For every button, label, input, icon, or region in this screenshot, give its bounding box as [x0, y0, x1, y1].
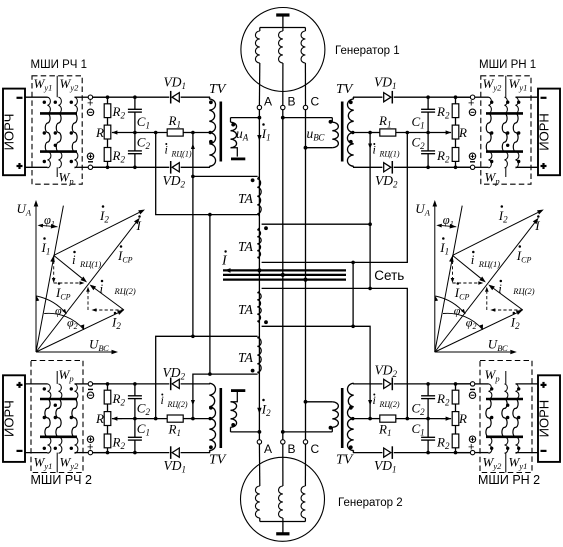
wire R1 to TV tap: [183, 132, 193, 134]
svg-text:+: +: [468, 98, 474, 110]
ground symbol TV3: [231, 389, 245, 392]
node R1-branch2 junction lowerright: [368, 417, 372, 421]
svg-text:RЦ(2): RЦ(2): [167, 400, 188, 409]
TV4 secondary winding upper half: [348, 383, 354, 418]
terminal MShI RN1 top: [470, 95, 474, 99]
wire TV3 secondary bottom to VD1 lower: [181, 452, 210, 454]
MShI RCh1 dashed box: [32, 76, 82, 184]
wire R1 to TV3 tap: [183, 418, 193, 420]
node lowbot-cap junction right: [426, 451, 430, 455]
generator G2 neutral bar: [276, 532, 289, 535]
wire TA1 top stub: [193, 175, 258, 177]
node top-capacitor junction: [133, 95, 137, 99]
wire TV1 primary to ground: [231, 148, 238, 157]
generator G2 circle: [241, 457, 325, 541]
terminal MShI RCh2 top: [88, 382, 92, 386]
node lowtop-res junction: [106, 382, 110, 386]
wire RN2 to IORN bottom: [516, 452, 539, 454]
wire middle row lower-left: [112, 418, 167, 420]
polarity circled-plus bottom: [87, 153, 93, 159]
MShI RCh2 transformer core bars: [40, 398, 77, 401]
TV2 primary polarity dot: [329, 120, 333, 124]
svg-text:Сеть: Сеть: [374, 268, 404, 283]
generator G1 circle: [241, 8, 325, 92]
capacitor C1 lower-left: [134, 419, 136, 437]
node bus-B junction: [281, 273, 285, 277]
node middle-cap junction right: [426, 131, 430, 135]
phasor left U_A axis: [35, 207, 37, 353]
current arrow i_RC1 upper-right: [368, 144, 372, 150]
svg-text:RЦ(1): RЦ(1): [478, 259, 500, 269]
wire terminal to chain top lower: [93, 383, 108, 385]
TV3 secondary polarity dot top: [209, 406, 213, 410]
polarity - bottom right: [470, 161, 475, 163]
TA3 current transformer coil on phase A: [257, 293, 261, 322]
terminal B bottom: [281, 440, 285, 444]
node bottom-capacitor junction: [133, 166, 137, 170]
wire bottom row lower-right: [394, 452, 473, 454]
wire TV4 center tap: [354, 418, 370, 420]
wire B to TV4 primary: [283, 431, 333, 433]
phasor left I1 vector arrowhead: [50, 255, 55, 262]
phasor left I_RC2 vector: [95, 288, 124, 310]
wire phase B line: [282, 110, 284, 440]
current arrow i_RC2 lower-left: [191, 400, 195, 406]
phasor left U_BC axis: [36, 351, 112, 353]
TV1 core: [220, 102, 223, 162]
resistor R2 lower-right bottom: [455, 426, 457, 435]
node C-TV2 junction: [304, 146, 308, 150]
terminal C top: [303, 105, 307, 109]
wire TA4 top to branch1 lower: [156, 336, 258, 418]
wire bottom row upper-right: [394, 166, 473, 168]
capacitor C1 lower-right: [427, 419, 429, 437]
svg-text:ТА: ТА: [238, 302, 254, 317]
mains bus line 3: [223, 278, 346, 280]
generator G1 neutral bar: [276, 13, 289, 16]
TV4 secondary polarity dot bottom: [349, 445, 353, 449]
terminal A bottom: [257, 440, 261, 444]
svg-text:ИОРЧ: ИОРЧ: [2, 400, 17, 437]
wire TV2 secondary top to VD1 right: [353, 96, 382, 98]
TV1 secondary polarity dot bottom: [209, 140, 213, 144]
MShI RCh1 Wp stub: [56, 167, 58, 177]
terminal C bottom: [303, 440, 307, 444]
wire branch3 vertical: [209, 215, 211, 375]
svg-text:МШИ РЧ 1: МШИ РЧ 1: [31, 59, 88, 71]
svg-text:R: R: [95, 411, 104, 426]
wire right branch2 vertical upper: [369, 133, 371, 289]
MShI RN2 top windings Wp: [489, 384, 492, 399]
svg-text:R: R: [458, 125, 467, 140]
TV3 primary polarity dot: [231, 423, 235, 427]
wire RN1 to IORN bottom: [516, 166, 539, 168]
svg-text:МШИ РН 2: МШИ РН 2: [478, 473, 540, 487]
phasor left I_RC1 vector: [54, 255, 82, 278]
terminal MShI RN2 top: [470, 382, 474, 386]
wire top row upper-right: [394, 96, 473, 98]
svg-text:С: С: [311, 442, 320, 456]
diode VD1 upper-left: [170, 91, 172, 104]
MShI RCh1 winding Wy1 top: [48, 97, 51, 113]
MShI RCh2 middle dots: [43, 416, 46, 419]
diode VD1 lower-right: [391, 446, 393, 459]
phasor right I2 lower vector: [435, 313, 517, 352]
phasor right I_RC2 dashed horizontal: [495, 309, 523, 311]
svg-text:I: I: [534, 218, 540, 233]
node lowtop-res junction right: [454, 382, 458, 386]
generator G2 winding phase B: [282, 444, 284, 486]
phasor left I2 lower vector: [36, 313, 118, 352]
phasor left I total vector: [36, 223, 136, 352]
wire MShI RCh2 bottom output: [75, 452, 89, 454]
svg-text:В: В: [288, 95, 296, 109]
wire RN2 terminal to chain bottom: [456, 452, 471, 454]
MShI RCh1 middle dots: [43, 131, 46, 134]
resistor R2 lower-left top: [107, 384, 109, 390]
MShI RN2 transformer core bars: [486, 398, 523, 401]
diode VD1 lower-left: [170, 446, 172, 459]
resistor R1 upper-right: [380, 129, 396, 136]
wire top row lower-right: [394, 383, 473, 385]
IORN minus upper: [541, 97, 547, 99]
phasor right I_RC1 vector: [453, 255, 481, 278]
IORCh minus upper: [17, 97, 23, 99]
svg-text:ИОРН: ИОРН: [537, 113, 552, 151]
resistor R1 lower-left: [167, 415, 183, 422]
phasor right I_RC1 dashed horizontal: [453, 282, 479, 284]
wire TV3 primary to ground: [231, 392, 238, 402]
capacitor C2 lower-left: [134, 384, 136, 396]
MShI RCh1 winding center top stub: [56, 76, 58, 97]
R wiper arrow upper-left: [117, 132, 122, 134]
node top-resistor junction: [106, 95, 110, 99]
svg-text:TV: TV: [336, 453, 354, 468]
wire R1 to TV4 tap: [370, 418, 380, 420]
svg-text:RЦ(1): RЦ(1): [79, 259, 101, 269]
capacitor C2 upper-left: [134, 133, 136, 151]
TA2 polarity dot: [264, 226, 268, 230]
phasor right U_BC axis: [435, 351, 511, 353]
IORCh plus lower: [17, 383, 23, 385]
TV2 secondary winding upper half: [348, 99, 354, 133]
MShI RN1 middle dots: [490, 131, 493, 134]
wire TA4 bottom to i_RC2 branch: [193, 374, 258, 419]
MShI RCh1 bottom dots: [43, 160, 46, 163]
MShI RN1 middle windings: [486, 113, 491, 151]
MShI RCh1 winding Wp bottom: [48, 152, 51, 168]
diode VD2 lower-left: [170, 378, 172, 391]
wire TV4 secondary top to VD2 lowerright: [353, 383, 382, 385]
wire TA3 bottom to right branch2 lower: [262, 326, 371, 418]
phasor left I_RC1 dashed vertical: [53, 255, 55, 278]
wire TV3 center tap: [193, 418, 209, 420]
phasor left phi1 angle arrow: [43, 226, 58, 227]
node top-cap junction right: [426, 95, 430, 99]
bus current arrow I: [225, 268, 231, 273]
polarity circled-plus lowerright: [469, 436, 475, 442]
phasor left I_RC2 dashed horizontal: [97, 309, 125, 311]
terminal A top: [257, 105, 261, 109]
potentiometer R lower-left: [107, 404, 109, 412]
svg-text:ИОРН: ИОРН: [537, 400, 552, 438]
wire terminal to chain bottom: [93, 166, 108, 168]
svg-text:С: С: [311, 95, 320, 109]
phasor right I_RC2 dashed vertical: [486, 292, 488, 310]
capacitor C2 upper-right: [427, 133, 429, 151]
svg-text:RЦ(1): RЦ(1): [171, 150, 192, 159]
node lowmid-branch1 junction right: [406, 417, 410, 421]
svg-text:Генератор 2: Генератор 2: [338, 497, 403, 509]
svg-text:TV: TV: [336, 82, 354, 97]
node TV2 tap: [351, 131, 354, 134]
phasor right I total vector: [435, 223, 535, 352]
wire top row upper-left: [90, 96, 169, 98]
phasor left I1 direction line: [36, 206, 63, 352]
svg-text:МШИ РЧ 2: МШИ РЧ 2: [31, 473, 92, 487]
wire bottom row upper-left: [90, 166, 169, 168]
generator G2 winding phase A: [258, 444, 260, 486]
svg-text:RЦ(2): RЦ(2): [379, 400, 400, 409]
IORN box upper: [538, 89, 560, 176]
IORN plus lower: [541, 384, 547, 386]
node middle-branch1 junction: [154, 131, 158, 135]
wire RN1 terminal to chain top: [456, 96, 471, 98]
node lowbot-cap junction: [133, 451, 137, 455]
wire MShI RCh1 bottom output: [75, 166, 89, 168]
wire TV2 center tap: [354, 132, 370, 134]
MShI RN1 bottom windings: [489, 152, 492, 168]
wire RN1 terminal to chain bottom: [456, 166, 471, 168]
terminal MShI RCh1 top: [88, 95, 92, 99]
wire TV1 secondary bottom to VD2: [181, 166, 210, 168]
TA1 polarity dot: [251, 178, 255, 182]
node R1-branch2 junction: [191, 131, 195, 135]
phasor left I_RC1 dashed horizontal: [54, 282, 80, 284]
potentiometer R upper-right: [455, 118, 457, 126]
node TV1 tap: [209, 131, 212, 134]
TV2 secondary winding lower half: [347, 133, 353, 167]
potentiometer R lower-right: [455, 404, 457, 412]
wire middle row upper-left: [112, 132, 167, 134]
resistor R2 upper-left bottom: [107, 139, 109, 148]
phasor right U_A axis: [434, 207, 436, 353]
phasor right phi2 arc: [443, 313, 483, 329]
phasor left phi arc: [37, 296, 67, 314]
R wiper arrow lower-right: [441, 418, 446, 420]
potentiometer R upper-left: [107, 118, 109, 126]
wire IORCh2 to MShI bottom: [25, 452, 48, 454]
wire TV1 center tap: [193, 132, 209, 134]
svg-text:RЦ(2): RЦ(2): [114, 286, 136, 296]
wire TV2 primary bottom to C: [306, 147, 333, 149]
TA2 current transformer coil on phase A: [257, 230, 261, 258]
generator G1 winding phase B: [282, 28, 284, 32]
TV3 primary winding u_A lower: [230, 427, 232, 432]
resistor R1 lower-right: [380, 415, 396, 422]
svg-text:ИОРЧ: ИОРЧ: [2, 114, 17, 151]
node lowtop-cap junction: [133, 382, 137, 386]
MShI RCh2 bottom dots: [43, 447, 46, 450]
IORCh box lower: [3, 375, 25, 462]
resistor R2 lower-right top: [455, 384, 457, 390]
node branch2 TA1-top junction: [191, 175, 195, 179]
wire IORCh to MShI top: [25, 96, 48, 98]
R wiper arrow lower-left: [117, 418, 122, 420]
svg-text:i: i: [498, 281, 502, 296]
node TA1-bottom branch3 junction: [208, 213, 212, 217]
svg-text:А: А: [264, 95, 272, 109]
node middle-branch1 junction right: [406, 131, 410, 135]
node middle-cap junction: [133, 131, 137, 135]
svg-text:I: I: [136, 218, 142, 233]
MShI RCh1 middle windings: [45, 113, 50, 151]
TV4 primary winding u_BC lower: [331, 427, 333, 432]
TV4 core: [341, 388, 344, 448]
wire right branch1 vertical to TA2 bottom: [262, 133, 408, 263]
node TV3 tap: [209, 417, 212, 420]
polarity circled-plus bottom right: [469, 153, 475, 159]
wire B to TV2 primary: [283, 117, 333, 119]
svg-text:TV: TV: [209, 82, 227, 97]
MShI RN2 Wp stub: [505, 371, 507, 384]
TA4 current transformer coil on phase A: [257, 338, 261, 373]
wire G1 winding connector: [260, 27, 306, 29]
node TA2-bottom branch3r junction: [351, 261, 355, 265]
node bottom-res junction right: [454, 166, 458, 170]
polarity circled-minus lower: [87, 392, 93, 398]
MShI RN1 dashed box: [481, 76, 531, 184]
TV3 secondary polarity dot bottom: [209, 445, 213, 449]
wire RN1 to IORN top: [516, 96, 539, 98]
wire bottom row lower-left: [90, 452, 169, 454]
MShI RN2 bottom dots: [490, 447, 493, 450]
node branch3 TA4-bottom junction: [208, 372, 212, 376]
node bus-A junction: [257, 268, 261, 272]
wire middle row lower-right: [396, 418, 451, 420]
MShI RCh2 middle windings: [45, 399, 50, 437]
TV1 primary polarity dot: [231, 123, 235, 127]
TV1 secondary polarity dot top: [209, 100, 213, 104]
wire branch2 vertical full: [192, 133, 194, 337]
TA4 polarity dot: [251, 369, 255, 373]
phasor right I_RC2 vector: [494, 288, 523, 310]
wire TV4 secondary bottom to VD1 lowerright: [353, 452, 382, 454]
node TV4 tap: [351, 417, 354, 420]
IORN plus upper: [541, 165, 547, 167]
MShI RCh2 dashed box: [31, 361, 83, 473]
node A-TV3 junction: [258, 430, 262, 434]
node bus-C junction: [303, 278, 307, 282]
wire RN2 to IORN top: [516, 383, 539, 385]
wire TV4 primary top to C: [306, 401, 333, 403]
TA1 current transformer coil on phase A: [257, 179, 261, 214]
diode VD2 lower-right: [391, 378, 393, 391]
phasor left I2 upper vector: [54, 212, 140, 255]
generator G2 winding phase C: [304, 444, 306, 486]
wire TA3 top to right branch1 lower corner: [262, 288, 408, 418]
node lowmid-cap junction: [133, 417, 137, 421]
TA3 polarity dot: [264, 320, 268, 324]
MShI RN2 top dots: [490, 387, 493, 390]
svg-text:φ: φ: [55, 304, 62, 318]
polarity circled-minus top: [87, 109, 93, 115]
wire G2 winding connector: [260, 521, 306, 523]
wire phase A line: [258, 110, 260, 440]
diode VD1 upper-right: [391, 91, 393, 104]
MShI RN2 bottom windings Wy: [489, 437, 492, 453]
current label I1 on phase A with arrow: [257, 135, 261, 141]
wire G2 neutral stem: [282, 522, 284, 534]
phasor right I_RC1 dashed vertical: [452, 255, 454, 278]
svg-text:ТА: ТА: [238, 191, 254, 206]
current arrow i_RC2 lower-right: [368, 400, 372, 406]
MShI RN1 transformer core bars: [486, 112, 523, 115]
node bottom-resistor junction: [106, 166, 110, 170]
MShI RCh1 top dots: [43, 101, 46, 104]
phasor right I1 direction line: [435, 206, 462, 352]
ground symbol TV1: [231, 157, 245, 160]
IORN box lower: [538, 375, 560, 462]
node lowmid-cap junction right: [426, 417, 430, 421]
svg-text:+: +: [87, 98, 93, 110]
TV3 core: [220, 388, 223, 448]
TV1 primary winding u_A: [230, 118, 232, 123]
wire A to TV3 primary: [231, 431, 260, 433]
wire terminal to chain bottom lower: [93, 452, 108, 454]
diode VD2 upper-left: [170, 161, 172, 174]
MShI RN1 Wp stub: [505, 167, 507, 177]
MShI RN2 dashed box: [480, 361, 532, 473]
svg-text:ТА: ТА: [238, 350, 254, 365]
mains bus line 1: [223, 269, 346, 271]
resistor R2 lower-left bottom: [107, 426, 109, 435]
TV2 secondary polarity dot top: [349, 100, 353, 104]
terminal MShI RCh1 bottom: [88, 165, 92, 169]
svg-text:ТА: ТА: [238, 239, 254, 254]
terminal MShI RN1 bottom: [470, 165, 474, 169]
MShI RCh2 top dots: [43, 387, 46, 390]
svg-text:RЦ(1): RЦ(1): [379, 150, 400, 159]
wire RN2 terminal to chain top: [456, 383, 471, 385]
TV1 secondary winding lower half: [209, 133, 215, 167]
TV1 secondary winding upper half: [209, 99, 215, 133]
node A-TV junction: [258, 116, 262, 120]
wire TV2 secondary bottom to VD2 right: [353, 166, 382, 168]
TV4 primary polarity dot: [329, 426, 333, 430]
MShI RN1 top dots: [490, 101, 493, 104]
svg-text:i: i: [72, 252, 76, 267]
capacitor C2 lower-right: [427, 384, 429, 396]
svg-text:R: R: [95, 125, 104, 140]
node top-res junction right: [454, 95, 458, 99]
phasor right I2 upper vector: [453, 212, 539, 255]
resistor R2 upper-left top: [107, 97, 109, 104]
resistor R1 upper-left: [167, 129, 183, 136]
svg-text:i: i: [471, 252, 475, 267]
node TA4-top branch2 junction: [191, 335, 195, 339]
svg-text:TV: TV: [209, 453, 227, 468]
node lowtop-cap junction right: [426, 382, 430, 386]
diode VD2 upper-right: [391, 161, 393, 174]
generator G1 winding phase A: [259, 28, 261, 32]
node lowbot-res junction right: [454, 451, 458, 455]
polarity circled-plus lower: [87, 436, 93, 442]
wire MShI RCh2 top output: [75, 383, 89, 385]
current arrow i_RC1 upper-left: [191, 144, 195, 150]
MShI RN1 top windings: [489, 97, 492, 113]
node branch2r TA3-top junction: [368, 287, 372, 291]
